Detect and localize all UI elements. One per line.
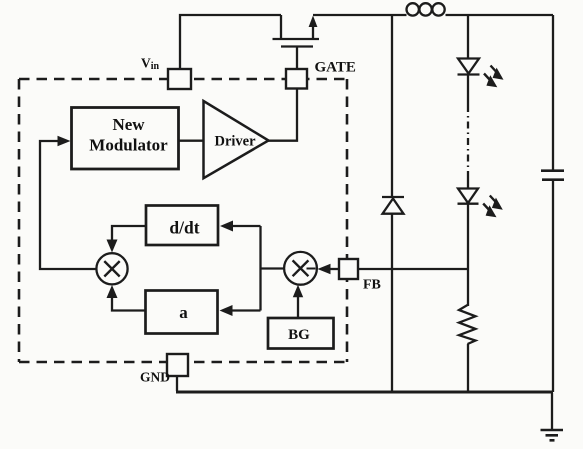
- LED D2 light arrows: [484, 66, 504, 88]
- pin Vin: [168, 69, 191, 89]
- wire FB pin to multiplier U6 with arrow left: [328, 268, 339, 270]
- wire d/dt output to multiplier top: [112, 226, 146, 243]
- wire modulator to driver: [178, 140, 204, 142]
- pin GATE: [286, 69, 307, 89]
- arrow down into multiplier U3: [107, 240, 118, 253]
- svg-text:d/dt: d/dt: [169, 218, 199, 238]
- wire resistor bottom to rail: [467, 344, 469, 392]
- wire top rail right: [313, 14, 553, 16]
- inductor L1: [407, 3, 445, 15]
- svg-text:Vin: Vin: [141, 56, 160, 73]
- block BG U7: [268, 318, 334, 349]
- capacitor C1: [541, 171, 564, 180]
- multiplier U3 (left): [96, 253, 127, 284]
- wire FB net horizontal: [358, 268, 468, 270]
- svg-text:GATE: GATE: [315, 60, 356, 76]
- pin FB: [339, 259, 358, 279]
- svg-text:New: New: [112, 115, 145, 134]
- block d/dt U4: [146, 206, 218, 246]
- multiplier U6 (right): [284, 252, 317, 285]
- wire LED string dash-dot: [467, 75, 469, 106]
- wire diode branch top: [391, 15, 393, 197]
- arrow into modulator: [58, 136, 71, 147]
- resistor R1: [459, 305, 476, 344]
- block New Modulator U1: [72, 108, 179, 170]
- block a U5: [146, 291, 218, 334]
- wire into d/dt with arrow: [232, 225, 261, 227]
- wire bottom ground rail: [176, 391, 553, 394]
- diode D1: [382, 197, 404, 214]
- LED D2: [458, 59, 480, 75]
- wire into a with arrow: [231, 309, 261, 311]
- wire LED branch top: [467, 15, 469, 58]
- wire BG to multiplier U6 with arrow up: [297, 294, 299, 318]
- wire ground stem: [551, 393, 553, 429]
- transistor Q1 (PMOS pass switch): [273, 15, 320, 69]
- svg-text:FB: FB: [363, 278, 381, 293]
- wire capacitor bottom to rail: [552, 180, 554, 392]
- wire diode bottom to rail: [391, 214, 393, 392]
- wire driver output to GATE pin: [269, 89, 298, 141]
- LED D3 light arrows: [483, 196, 503, 218]
- IC boundary dashed box: [19, 79, 347, 362]
- wire top rail left: [180, 15, 281, 69]
- pin GND: [167, 354, 188, 376]
- wire a output to multiplier bottom: [112, 295, 145, 311]
- arrow up into multiplier U3: [107, 285, 118, 298]
- wire splitter from multiplier U6 output: [261, 226, 285, 311]
- svg-text:Modulator: Modulator: [89, 136, 168, 155]
- wire LED bottom to resistor: [467, 204, 469, 306]
- svg-text:a: a: [179, 303, 188, 322]
- svg-text:GND: GND: [140, 370, 170, 385]
- svg-text:Driver: Driver: [214, 134, 256, 150]
- wire right vertical (to capacitor): [552, 15, 554, 170]
- op-amp Driver U2: [204, 101, 269, 178]
- LED D3: [458, 189, 479, 204]
- ground symbol: [541, 430, 564, 440]
- wire feedback loop to modulator input: [40, 141, 97, 269]
- wire GND pin drop: [176, 376, 178, 391]
- svg-text:BG: BG: [288, 327, 310, 343]
